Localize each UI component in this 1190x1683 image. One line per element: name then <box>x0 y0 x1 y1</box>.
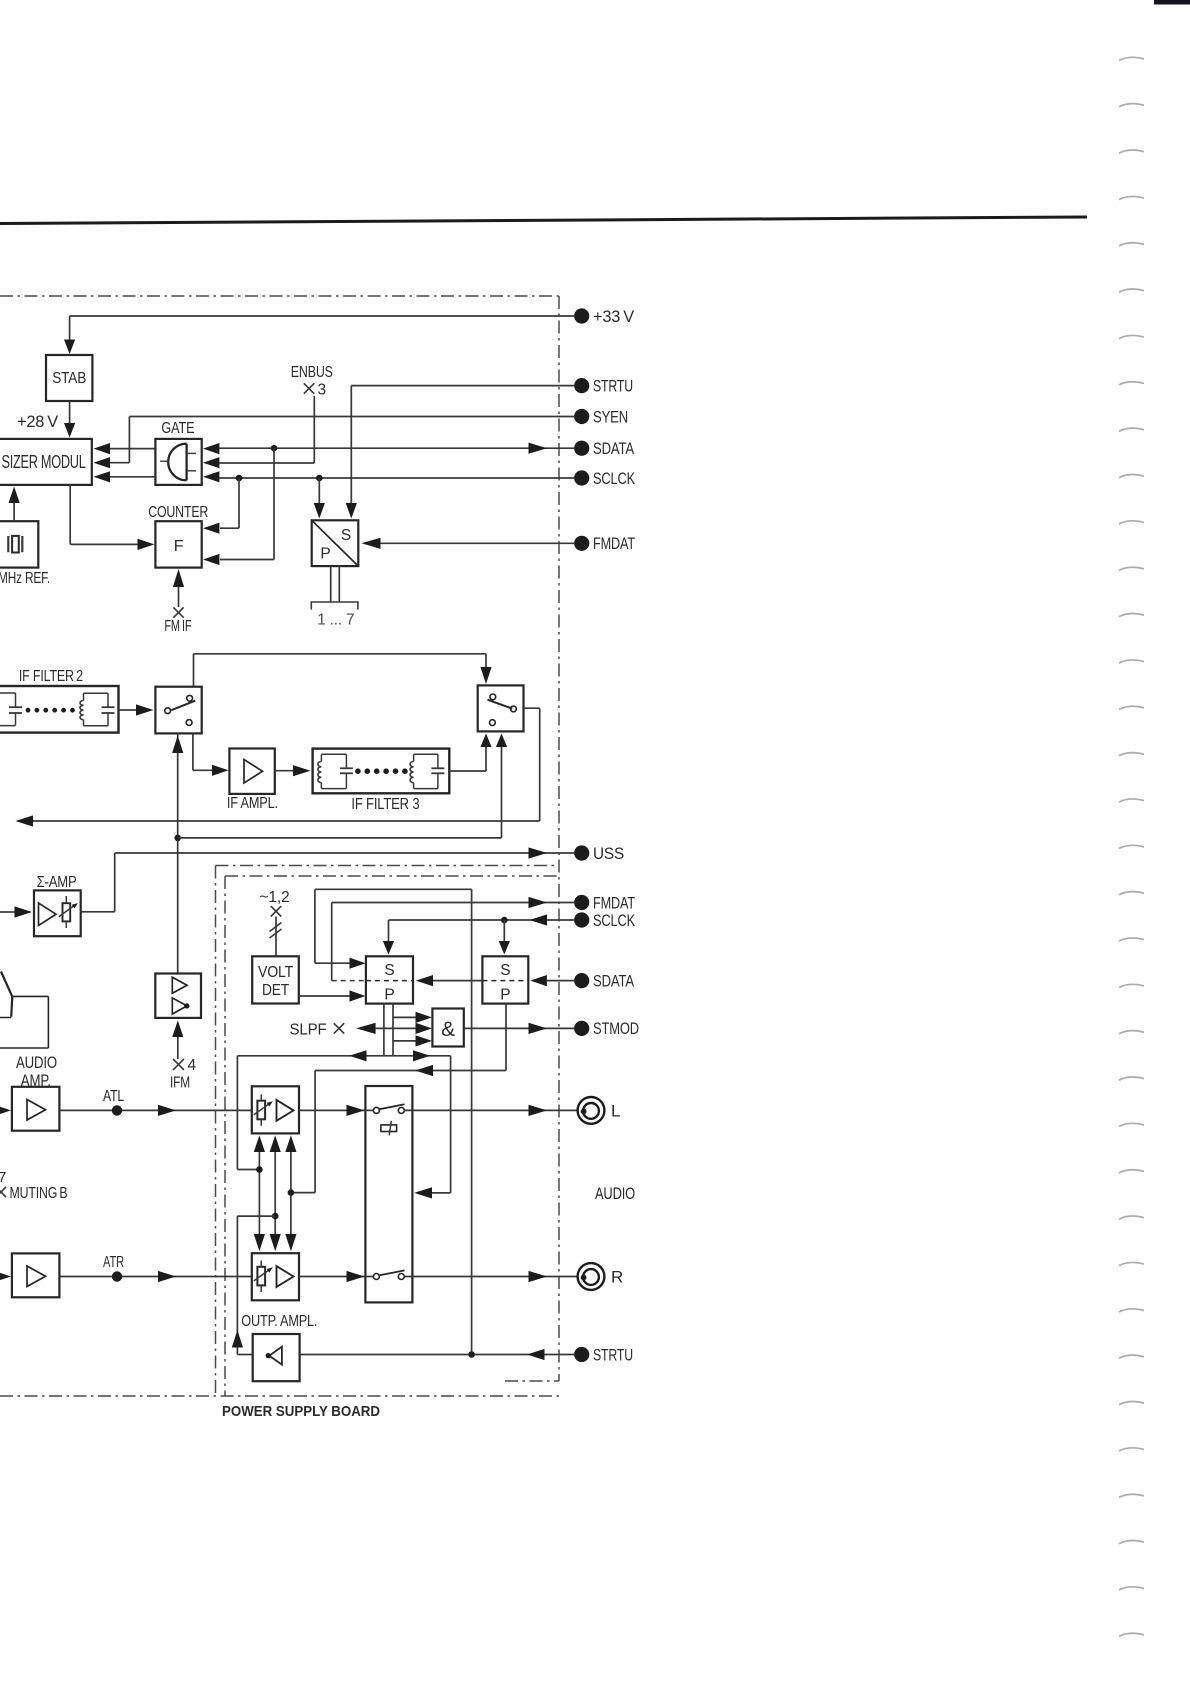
arrow L out <box>529 1105 548 1116</box>
block IF FILTER 2 (cut) <box>0 686 119 733</box>
block S/P converter 2 <box>482 956 528 1003</box>
terminal FMDAT 2 <box>574 895 589 910</box>
block IF switch 1 <box>155 687 201 734</box>
junction SCLCK-sp <box>316 475 323 482</box>
arrow into synthesizer module <box>64 423 75 438</box>
svg-text:SDATA: SDATA <box>593 971 635 990</box>
svg-text:P: P <box>384 987 394 1004</box>
terminal USS <box>574 845 589 860</box>
arrow ctl3 up <box>285 1135 296 1152</box>
wire control bus split <box>237 1055 450 1057</box>
wire STRTU loop <box>471 889 473 1354</box>
filter2 left tuned circuit (cut) <box>0 692 16 694</box>
wire STMOD row <box>464 1027 574 1029</box>
wire STRTU row <box>351 385 574 387</box>
filter2 right tuned circuit <box>84 692 109 694</box>
arrow FMDAT out <box>529 897 548 908</box>
wire into sigma amp <box>0 911 15 913</box>
wire STRTU into S/P <box>350 386 352 503</box>
svg-text:ATL: ATL <box>103 1088 124 1105</box>
inverter triangle <box>269 1347 282 1365</box>
cable mark FMIF x <box>173 607 183 617</box>
svg-text:3: 3 <box>318 382 326 399</box>
block IFM amplifiers <box>155 974 201 1018</box>
svg-text:IFM: IFM <box>170 1075 190 1092</box>
wire SCLCK2 into S/P2 <box>503 920 505 941</box>
wire SLPF-AND row <box>376 1027 416 1029</box>
terminal SCLCK 2 <box>574 912 589 927</box>
arrow strobe into S/P1 <box>350 958 366 969</box>
muting switch (cut) <box>1 972 12 997</box>
filter3 coupling dots <box>355 768 361 774</box>
terminal SYEN <box>574 409 589 424</box>
wire SYEN row <box>129 416 574 418</box>
arrow up into switch2 right <box>496 734 507 748</box>
wire stub to AND 1 <box>393 1016 416 1018</box>
tuner board border top <box>0 295 559 297</box>
wire SDATA row <box>219 447 574 449</box>
bus S/P outputs 1..7 <box>330 566 332 602</box>
arrow into AND 2 <box>416 1023 433 1034</box>
block AND gate <box>432 1009 463 1047</box>
arrow SCLCK2 into board <box>530 914 547 925</box>
block audio amp L <box>12 1087 60 1131</box>
arrow into relay R <box>347 1271 365 1282</box>
arrow into STAB <box>64 340 75 355</box>
arrow row2 into synthesizer <box>94 457 111 468</box>
arrow muting up <box>232 1330 243 1348</box>
terminal SCLCK <box>574 470 589 485</box>
wire sigma-amp to USS <box>81 911 115 913</box>
arrow into counter right top <box>203 523 219 534</box>
svg-text:SLPF: SLPF <box>290 1022 327 1039</box>
dashed link to S/P1 divider <box>332 980 366 982</box>
svg-text:&: & <box>441 1018 455 1041</box>
svg-text:MUTING B: MUTING B <box>10 1185 68 1202</box>
svg-text:F: F <box>174 538 184 555</box>
control line 1 <box>258 1152 260 1234</box>
svg-text:Σ-AMP: Σ-AMP <box>37 874 77 891</box>
svg-text:SYEN: SYEN <box>593 407 628 426</box>
junction SCLCK-counter <box>236 475 243 482</box>
switch1 contacts <box>165 708 171 714</box>
arrow volt det into S/P1 <box>350 990 366 1001</box>
svg-text:+28 V: +28 V <box>17 413 58 431</box>
svg-text:ATR: ATR <box>103 1254 124 1271</box>
filter3 right tuned circuit <box>414 753 438 755</box>
wire S/P2 to S/P1 <box>433 980 482 982</box>
arrow SDATA direction <box>529 443 548 454</box>
arrow control right <box>413 1050 430 1061</box>
arrow into switch1 <box>136 704 154 715</box>
svg-text:GATE: GATE <box>161 420 194 437</box>
block output amp R <box>252 1253 299 1300</box>
arrow row3 into gate <box>203 471 219 482</box>
junction STRTU bottom <box>468 1351 475 1358</box>
wire R through relay <box>299 1276 373 1278</box>
wire STAB to synthesizer <box>69 401 71 423</box>
svg-text:SDATA: SDATA <box>593 439 635 458</box>
block STAB <box>46 355 92 401</box>
junction SCLCK2 <box>501 917 508 924</box>
control line 3 <box>290 1152 292 1234</box>
filter2 coupling dots <box>26 708 31 713</box>
wire switch1 to IF ampl <box>192 733 194 770</box>
terminal SDATA <box>574 441 589 456</box>
block VOLT DET <box>252 956 299 1003</box>
arrow ctl2 up <box>270 1135 281 1152</box>
wire L through relay <box>299 1109 373 1111</box>
arrow into relay coil <box>414 1187 432 1198</box>
junction ctl3 <box>288 1189 295 1196</box>
arrow into sigma amp <box>15 906 33 917</box>
arrow into counter right bottom <box>203 554 219 565</box>
arrow FMDAT into S/P <box>362 538 381 549</box>
arrow R out <box>529 1271 548 1282</box>
arrow into audio amp L <box>0 1105 11 1116</box>
svg-text:IF AMPL.: IF AMPL. <box>227 795 278 812</box>
arrow S/P2 control <box>415 1065 433 1076</box>
relay contact L <box>373 1107 379 1113</box>
arrow into relay L <box>347 1105 365 1116</box>
wire SCLCK into S/P <box>318 478 320 503</box>
relay contact R <box>373 1274 379 1280</box>
wire STRTU bottom row <box>300 1354 574 1356</box>
svg-text:STRTU: STRTU <box>593 1345 633 1364</box>
block IF FILTER 3 <box>313 749 450 794</box>
block sigma amp <box>34 890 81 936</box>
svg-text:IF FILTER 2: IF FILTER 2 <box>19 668 83 685</box>
relay coil symbol <box>381 1125 397 1132</box>
svg-text:STAB: STAB <box>52 370 86 387</box>
connector R <box>578 1263 605 1290</box>
svg-text:STRTU: STRTU <box>593 376 633 395</box>
svg-text:P: P <box>320 546 330 563</box>
connector L <box>578 1097 605 1124</box>
svg-text:R: R <box>611 1268 623 1287</box>
spiral binding marks <box>1119 57 1144 60</box>
svg-text:S: S <box>384 962 394 979</box>
arrow into audio amp R <box>0 1271 11 1282</box>
svg-text:FMDAT: FMDAT <box>593 534 635 553</box>
wire row1 synthesizer-gate <box>110 448 154 450</box>
arrow ctl2 down <box>270 1234 281 1251</box>
arrow SDATA2 into S/P2 <box>530 975 547 986</box>
arrow USS <box>529 847 548 858</box>
wire control to relay <box>450 1056 452 1193</box>
wire IFM node to switch2 <box>178 837 502 839</box>
black page edge mark top-right <box>1154 0 1190 5</box>
arrow crystal up <box>9 487 20 504</box>
svg-text:STMOD: STMOD <box>593 1019 639 1038</box>
wire IFM input <box>177 1037 179 1059</box>
wire SDATA to counter <box>273 448 275 559</box>
svg-text:USS: USS <box>593 844 624 863</box>
junction IFM node <box>174 835 181 842</box>
wire SCLCK row <box>219 477 574 479</box>
terminal STRTU bottom <box>574 1347 589 1362</box>
filter3 left tuned circuit <box>321 753 346 755</box>
svg-text:SIZER MODUL: SIZER MODUL <box>2 451 86 472</box>
audio amp L triangle <box>27 1100 46 1121</box>
arrow into IF ampl <box>212 765 229 776</box>
terminal STRTU <box>574 378 589 393</box>
terminal STMOD <box>574 1021 589 1036</box>
cable mark x4 IFM <box>173 1059 184 1070</box>
wire row3 synthesizer-gate <box>110 476 154 478</box>
wire volt det input <box>275 917 277 957</box>
crystal symbol <box>7 536 9 552</box>
power board inner border top <box>225 875 558 877</box>
svg-text:P: P <box>500 987 510 1004</box>
arrow audio R direction <box>158 1271 176 1282</box>
wire FMDAT row <box>381 542 575 544</box>
svg-text:FM IF: FM IF <box>164 618 191 635</box>
block crystal reference <box>0 521 38 567</box>
svg-text:1 ... 7: 1 ... 7 <box>317 612 354 629</box>
tuner board border bottom-right <box>216 865 560 867</box>
junction SDATA <box>271 445 278 452</box>
arrow audio L direction <box>158 1105 176 1116</box>
control line 2 <box>274 1152 276 1234</box>
terminal +33V <box>574 308 589 323</box>
svg-text:+33 V: +33 V <box>593 307 635 326</box>
svg-text:FMDAT: FMDAT <box>593 893 635 912</box>
svg-text:ENBUS: ENBUS <box>291 364 333 381</box>
arrow IF out to left <box>16 815 34 826</box>
svg-text:MHz REF.: MHz REF. <box>0 570 50 587</box>
wire STRTU loop top <box>315 888 472 890</box>
arrow FMIF up into counter <box>173 569 184 587</box>
wire crystal to synthesizer <box>13 502 15 521</box>
power board border bottom-right jog <box>505 1380 559 1382</box>
arrow STRTU into board <box>527 1349 545 1360</box>
arrow into AND 1 <box>416 1012 433 1023</box>
output amp R symbols <box>257 1267 265 1286</box>
wire muting control <box>237 1215 275 1217</box>
arrow S/P2 data into S/P1 <box>416 975 433 986</box>
wire ENBUS to gate <box>313 396 315 463</box>
block strobe inverter <box>253 1334 300 1381</box>
block GATE <box>155 439 201 485</box>
arrow up into IFM amps <box>172 1021 183 1038</box>
svg-text:7: 7 <box>0 1169 6 1186</box>
wire stub to AND 3 <box>393 1040 416 1042</box>
gate symbol <box>168 444 186 481</box>
arrow row2 into gate <box>203 457 219 468</box>
wire SCLCK to counter <box>238 478 240 528</box>
arrow SLPF out <box>356 1023 375 1034</box>
sigma amp symbols <box>39 903 57 926</box>
wire filter3 to switch2 <box>449 770 486 772</box>
wire FMIF to counter <box>178 587 180 607</box>
switch2 contacts <box>490 694 496 700</box>
heavy horizontal rule <box>0 217 1087 224</box>
output amp L symbols <box>257 1101 265 1120</box>
arrow ctl1 up <box>254 1135 265 1152</box>
block relay <box>365 1086 412 1302</box>
wire switch1 top to switch2 top <box>193 654 195 687</box>
wire SCLCK2 into S/P1 <box>388 920 390 941</box>
cable mark x3 <box>304 383 314 393</box>
wire synthesizer to counter <box>69 485 71 545</box>
block IF AMPL <box>229 749 274 794</box>
arrow STRTU into S/P top <box>346 503 357 519</box>
wire audio L to output amp <box>59 1109 251 1111</box>
junction ATL <box>112 1105 122 1115</box>
arrow up into switch2 left <box>480 734 491 748</box>
svg-text:~1,2: ~1,2 <box>260 889 290 906</box>
terminal FMDAT <box>574 536 589 551</box>
svg-text:4: 4 <box>188 1057 197 1074</box>
svg-text:SCLCK: SCLCK <box>593 469 636 488</box>
wire switch2 output to demod <box>524 707 540 709</box>
audio amp R triangle <box>27 1266 46 1287</box>
svg-text:IF FILTER 3: IF FILTER 3 <box>351 796 419 813</box>
arrow clock into S/P1 top <box>383 941 394 955</box>
svg-text:L: L <box>611 1101 620 1120</box>
arrow into filter3 <box>293 765 311 776</box>
block S/P converter 1 <box>366 956 413 1003</box>
svg-text:POWER SUPPLY BOARD: POWER SUPPLY BOARD <box>222 1403 380 1420</box>
block output amp L <box>252 1086 299 1133</box>
cable mark volt det <box>271 906 281 916</box>
wire volt det to S/P1 <box>299 995 350 997</box>
arrow down into switch2 <box>480 667 491 684</box>
arrow control left <box>349 1050 366 1061</box>
svg-text:VOLT: VOLT <box>258 964 294 981</box>
block audio amp R <box>12 1253 60 1297</box>
svg-text:AUDIO: AUDIO <box>595 1185 635 1203</box>
wire +33V rail <box>70 315 574 317</box>
arrow into AND 3 <box>416 1035 433 1046</box>
wire audio R to output amp <box>59 1276 251 1278</box>
arrow row1 into synthesizer <box>94 443 111 454</box>
wire IFM riser <box>177 733 179 973</box>
arrow clock into S/P2 top <box>499 941 510 955</box>
wire IF ampl to filter3 <box>275 770 293 772</box>
wire control left drop <box>236 1056 238 1170</box>
bus S/P1 outputs <box>383 1004 385 1056</box>
arrow ctl3 down <box>285 1234 296 1251</box>
wire FMDAT out <box>332 902 574 904</box>
junction ctl2 <box>272 1213 279 1220</box>
svg-text:OUTP. AMPL.: OUTP. AMPL. <box>241 1313 317 1330</box>
block serial-parallel converter S/P <box>312 520 359 566</box>
svg-text:S: S <box>341 527 351 544</box>
svg-text:SCLCK: SCLCK <box>593 911 636 930</box>
arrow up into switch1 bottom <box>172 736 183 754</box>
block IF switch 2 <box>478 685 524 731</box>
arrow into counter left <box>138 539 155 550</box>
block COUNTER F <box>155 521 201 567</box>
svg-text:S: S <box>500 962 510 979</box>
IF ampl triangle <box>244 760 263 784</box>
arrow row3 into synthesizer <box>94 471 111 482</box>
tuner board border right <box>558 296 560 1381</box>
junction ATR <box>112 1271 122 1281</box>
wire S/P2 control <box>505 1004 507 1071</box>
wire filter2 to switch1 <box>119 709 137 711</box>
block synthesizer module (cut) <box>0 439 92 485</box>
svg-text:COUNTER: COUNTER <box>148 504 208 521</box>
power board inner border left <box>224 876 226 1396</box>
IFM amp triangles <box>172 977 187 993</box>
wire SCLCK2 row <box>389 919 575 921</box>
svg-text:DET: DET <box>262 982 290 999</box>
boards border bottom <box>0 1395 560 1397</box>
arrow row1 into gate <box>203 443 219 454</box>
svg-text:AUDIO: AUDIO <box>16 1054 57 1072</box>
terminal SDATA 2 <box>574 973 589 988</box>
arrow ctl1 down <box>254 1234 265 1251</box>
arrow STMOD <box>529 1023 548 1034</box>
arrow SCLCK into S/P top <box>314 503 325 519</box>
junction ctl1 <box>256 1166 263 1173</box>
wire row2 from SYEN <box>110 462 129 464</box>
wire SDATA2 row <box>547 980 574 982</box>
power board outer border left <box>215 866 217 1397</box>
